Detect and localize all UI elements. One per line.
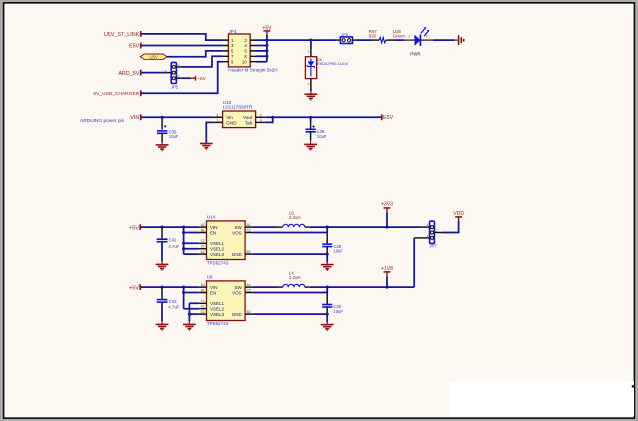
node C39 junction: [161, 116, 164, 119]
pin JP5.3: [176, 77, 180, 79]
svg-text:ARDUINO power pin: ARDUINO power pin: [80, 118, 125, 124]
capacitor C42: [157, 227, 180, 261]
port U5V: [140, 54, 167, 59]
node Vout/Tab: [271, 116, 274, 119]
wire +5V to U9 VIN: [141, 286, 199, 288]
inductor L5 2.2uH: [278, 210, 310, 227]
svg-text:+1V8: +1V8: [381, 266, 393, 272]
ground (C39): [156, 142, 169, 150]
svg-text:10uF: 10uF: [169, 134, 179, 139]
connector JP4: [228, 29, 277, 72]
capacitor C36: [306, 117, 327, 140]
pin JP7.1: [421, 226, 430, 228]
svg-text:VIN: VIN: [210, 225, 218, 230]
net label +5V (U9): [129, 284, 141, 291]
svg-text:VOS: VOS: [232, 230, 242, 235]
power +1V8: [381, 266, 393, 287]
pins U9 right: [245, 287, 253, 314]
svg-text:+5V: +5V: [129, 225, 139, 231]
net label E5V (right): [381, 114, 394, 121]
svg-text:VOS: VOS: [232, 290, 242, 295]
pin U15.3: [213, 116, 223, 118]
capacitor C33: [157, 287, 180, 321]
svg-text:U5V: U5V: [149, 54, 158, 59]
svg-text:+5V: +5V: [197, 76, 206, 81]
connector JP7: [427, 221, 438, 248]
svg-text:GND: GND: [226, 120, 237, 125]
svg-text:TPS62743: TPS62743: [207, 321, 229, 326]
capacitor C39: [157, 117, 179, 142]
svg-text:E5V: E5V: [383, 115, 394, 121]
node +3V3 junction: [385, 226, 388, 229]
ground (C38): [321, 262, 334, 270]
net label VIN: [130, 114, 141, 121]
svg-text:2.2uH: 2.2uH: [289, 215, 301, 220]
pins U9 left: [199, 287, 207, 314]
inductor L4 2.2uH: [278, 270, 310, 287]
ground (C33): [156, 321, 169, 330]
ground (C42): [156, 261, 169, 270]
net label 5V_USB_CHARGER: [93, 90, 141, 97]
svg-text:GND: GND: [232, 252, 243, 257]
wire L4 to JP7 pin3 (+1V8 rail): [310, 286, 414, 288]
pins U14 left: [199, 227, 207, 254]
wire D6 to ground: [310, 88, 312, 91]
svg-text:4.7uF: 4.7uF: [168, 304, 179, 309]
node GND/C30: [326, 313, 329, 316]
svg-text:820: 820: [369, 34, 377, 39]
svg-text:2: 2: [426, 35, 428, 39]
node GND/C38: [326, 253, 329, 256]
junction dots U9 EN: [182, 286, 185, 295]
svg-text:VIN: VIN: [130, 115, 139, 121]
diode D6 ESDA7P60-1U1M: [305, 49, 347, 88]
svg-text:VSEL3: VSEL3: [210, 312, 225, 317]
svg-text:TPS62743: TPS62743: [207, 260, 229, 265]
svg-text:PWR: PWR: [410, 51, 420, 56]
junction dots on +5V bus: [265, 39, 268, 58]
pin JP5.1: [176, 66, 180, 68]
connector JP9: [336, 32, 356, 44]
wire U5V_ST_LINK to JP4 pin 1: [141, 34, 223, 40]
svg-text:JP4: JP4: [229, 29, 237, 34]
tick mark right border: [632, 385, 635, 387]
wire JP5 pin3 to +5V: [181, 77, 191, 79]
net label U5V_ST_LINK: [104, 31, 142, 38]
pins U14 right: [245, 227, 253, 254]
svg-text:GND: GND: [232, 312, 243, 317]
svg-text:10uF: 10uF: [333, 249, 343, 254]
svg-text:ARD_5V: ARD_5V: [118, 71, 139, 77]
pins JP4 right: [250, 40, 256, 62]
power VDD: [453, 211, 464, 221]
wire U15 Tab tie: [265, 117, 273, 122]
pin JP7.3: [414, 237, 429, 239]
net label +5V (U14): [129, 224, 141, 231]
wire U9 VOS: [253, 287, 327, 292]
svg-text:ESDA7P60-1U1M: ESDA7P60-1U1M: [317, 62, 348, 66]
svg-text:U14: U14: [207, 215, 216, 220]
wire U14 EN/VSEL tie to +5V: [184, 227, 199, 254]
pin JP7.2: [434, 232, 442, 234]
wire 5V_USB_CHARGER to JP4 pin 9: [141, 62, 223, 93]
net label E5V: [129, 43, 142, 50]
svg-text:LD1117S50TR: LD1117S50TR: [223, 105, 253, 110]
wire U9 EN tie to +5V and VSEL2: [184, 287, 199, 309]
wire U9 VSEL1/VSEL3 to ground: [189, 303, 198, 321]
svg-text:E5V: E5V: [129, 44, 140, 50]
svg-text:10uF: 10uF: [333, 309, 343, 314]
svg-text:VIN: VIN: [210, 285, 218, 290]
junction dots U14 left: [182, 226, 185, 251]
wire E5V to JP4 pin 3: [141, 45, 223, 47]
svg-text:SW: SW: [234, 285, 242, 290]
svg-text:+3V3: +3V3: [381, 201, 393, 207]
svg-text:4.7uF: 4.7uF: [168, 244, 179, 249]
node D6 junction: [309, 39, 312, 42]
wire U14 VOS: [253, 227, 327, 232]
regulator U15 LD1117S50TR: [216, 100, 261, 128]
wire C30 to ground: [326, 314, 328, 322]
wire JP7 pin2 to VDD: [442, 221, 459, 233]
svg-text:VSEL3: VSEL3: [210, 252, 225, 257]
ground (D6): [305, 91, 318, 100]
wire U14 SW to L5: [253, 226, 278, 228]
wire +5V to U14 VIN: [141, 226, 199, 228]
svg-text:10uF: 10uF: [317, 134, 327, 139]
svg-text:VDD: VDD: [453, 211, 464, 217]
svg-text:VSEL2: VSEL2: [210, 247, 225, 252]
svg-text:JP7: JP7: [429, 243, 437, 248]
pin U15.2: [256, 116, 266, 118]
white region bottom right: [449, 381, 634, 416]
power +5V (top): [262, 26, 272, 35]
resistor R97: [369, 29, 393, 43]
ground (U15): [200, 143, 213, 150]
wire +5V rail to LED and ground: [267, 39, 455, 41]
wire C38 to ground: [326, 254, 328, 262]
regulator U14 TPS62743: [201, 215, 251, 266]
regulator U9 TPS62743: [201, 275, 251, 326]
node C33 junction: [160, 286, 163, 289]
svg-text:1: 1: [408, 35, 410, 39]
svg-text:C33: C33: [169, 299, 177, 304]
node +1V8 junction: [385, 286, 388, 289]
capacitor C30: [322, 293, 343, 314]
wire JP7 pin3 to +1V8 rail: [413, 238, 415, 287]
power +3V3: [381, 201, 393, 227]
capacitor C38: [322, 233, 343, 254]
svg-text:Tab: Tab: [245, 120, 253, 125]
pin U15.1: [213, 121, 223, 123]
LED LD8: [393, 27, 433, 56]
wire JP5 pin1 to JP4 pin 7: [181, 56, 223, 67]
svg-text:EN: EN: [210, 290, 216, 295]
svg-text:2.2uH: 2.2uH: [289, 275, 301, 280]
power +5V (at JP5): [190, 76, 206, 81]
node C38 junction: [326, 226, 329, 229]
ground (C30): [321, 322, 334, 330]
svg-text:10: 10: [242, 59, 247, 64]
svg-text:Green: Green: [393, 34, 406, 39]
svg-text:+5V: +5V: [129, 285, 139, 291]
svg-text:5V_USB_CHARGER: 5V_USB_CHARGER: [93, 91, 139, 97]
svg-text:VSEL1: VSEL1: [210, 301, 225, 306]
connector JP5: [165, 62, 180, 89]
svg-text:U5V_ST_LINK: U5V_ST_LINK: [104, 32, 140, 38]
pin U15.4: [256, 121, 266, 123]
svg-text:C42: C42: [169, 237, 177, 242]
ground (VSEL): [183, 322, 196, 331]
wire ARD_5V to JP5 pin 2: [141, 72, 167, 74]
svg-text:SW: SW: [234, 225, 242, 230]
svg-text:EN: EN: [210, 230, 216, 235]
node C30 junction: [326, 286, 329, 289]
wire U9 GND row: [253, 313, 327, 315]
ground (C36): [304, 140, 317, 150]
node C42 junction: [160, 226, 163, 229]
net label ARD_5V: [118, 70, 141, 77]
pin JP5.2: [167, 72, 171, 74]
node C36 junction: [309, 116, 312, 119]
svg-text:VSEL2: VSEL2: [210, 307, 225, 312]
pins JP4 left: [223, 40, 229, 62]
svg-text:JP5: JP5: [171, 85, 179, 90]
wire U9 SW to L4: [253, 286, 278, 288]
node VSEL3: [188, 313, 191, 316]
wire U15 Vout to E5V: [265, 116, 381, 118]
wires JP4 right pins to +5V bus: [256, 35, 267, 62]
wire U14 GND row: [253, 253, 327, 255]
ground (LED, rotated): [455, 35, 464, 45]
svg-text:JP9: JP9: [341, 32, 349, 37]
wire D6 branch: [310, 40, 312, 49]
wire U5V to JP4 pin 5: [167, 51, 223, 57]
wire VIN to U15: [141, 116, 213, 118]
wire L5 to JP7 pin1 (+3V3 rail): [310, 226, 421, 228]
svg-text:VSEL1: VSEL1: [210, 241, 225, 246]
svg-text:Header M Straight 5x2H: Header M Straight 5x2H: [228, 68, 277, 73]
svg-text:U9: U9: [207, 275, 213, 280]
wire U15 GND to ground: [206, 122, 213, 142]
